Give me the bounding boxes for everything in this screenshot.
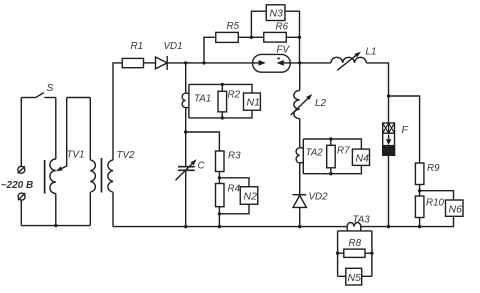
wire TA1 to C xyxy=(185,108,187,167)
node dot R5 branch on top wire xyxy=(202,61,205,64)
resistor R9 xyxy=(415,163,440,185)
arrester F (valve type) xyxy=(383,123,409,155)
node dot right column split xyxy=(387,94,390,97)
node dot rail x=388.5 xyxy=(387,225,390,228)
node dot R7 bottom xyxy=(329,172,332,175)
resistor R7 xyxy=(327,139,350,174)
node dot R3 branch xyxy=(184,130,187,133)
junction dot TV1 winding to rail xyxy=(54,224,57,227)
node dot R7 top xyxy=(329,137,332,140)
svg-text:TV1: TV1 xyxy=(67,150,85,161)
inductor L2 variable xyxy=(291,91,327,119)
wire R3 branch horizontal xyxy=(186,132,220,151)
svg-text:N5: N5 xyxy=(348,272,362,284)
wire R4 to rail xyxy=(218,207,220,227)
wire N3 right drop xyxy=(285,11,300,37)
TV1 core xyxy=(44,160,46,194)
wire branch to R9 column xyxy=(389,96,420,163)
arrester FV body xyxy=(253,45,291,73)
wire R3 to R4 xyxy=(218,172,220,184)
node dot R5/R6/N3 left xyxy=(250,36,253,39)
node dot R2 bottom xyxy=(221,116,224,119)
inductor L1 variable xyxy=(331,47,377,71)
unit N6 xyxy=(446,200,464,216)
node dot R3/R4/N2 top xyxy=(218,176,221,179)
resistor R3 xyxy=(216,151,242,172)
svg-text:S: S xyxy=(47,83,54,94)
svg-text:R1: R1 xyxy=(131,41,144,52)
wire bottom-left rail xyxy=(21,225,90,227)
FV left electrode xyxy=(253,60,266,66)
svg-text:N3: N3 xyxy=(270,8,284,20)
unit N5 xyxy=(346,268,362,285)
svg-text:N1: N1 xyxy=(247,97,260,109)
resistor R1 xyxy=(122,41,143,68)
svg-text:R8: R8 xyxy=(349,238,362,249)
transformer TV2 primary winding xyxy=(90,150,135,226)
wire R5 to node xyxy=(238,36,251,38)
current transformer TA1 winding xyxy=(182,93,211,107)
wire FV to L1 xyxy=(290,62,331,64)
node dot L2 branch on top wire xyxy=(298,61,301,64)
unit N2 xyxy=(240,187,258,205)
svg-text:L2: L2 xyxy=(315,98,326,109)
wire R9 bottom to node xyxy=(419,185,421,197)
terminal X1 upper xyxy=(18,166,25,173)
svg-text:R6: R6 xyxy=(276,22,289,33)
wire L1 to right corner and down xyxy=(366,63,388,123)
svg-text:F: F xyxy=(402,124,409,136)
capacitor C variable xyxy=(176,159,206,180)
wire VD1 to FV xyxy=(167,62,252,64)
wire N2 branch bottom xyxy=(219,204,249,214)
wire N6 branch xyxy=(420,191,454,200)
svg-text:VD2: VD2 xyxy=(309,192,329,203)
transformer TV1 winding (autotransformer) xyxy=(50,150,85,226)
wire L2 to TA2 xyxy=(299,119,301,148)
svg-text:TA1: TA1 xyxy=(194,94,211,105)
node dot rail x=419.6 xyxy=(418,225,421,228)
switch S xyxy=(21,83,56,98)
svg-text:TA2: TA2 xyxy=(306,148,324,159)
node dot R8 left xyxy=(336,252,339,255)
node dot N2 bottom xyxy=(218,212,221,215)
TA1 secondary loop xyxy=(186,84,252,118)
svg-text:R9: R9 xyxy=(427,163,440,174)
terminal X2 lower xyxy=(18,193,25,200)
wire C to bottom rail xyxy=(185,170,187,226)
wire R6 right branch drop to main wire xyxy=(299,37,301,63)
transformer TV2 secondary winding xyxy=(108,160,113,192)
diode VD2 xyxy=(293,192,329,208)
wire TV2 secondary top to main top-left corner xyxy=(113,63,122,160)
wire N3 branch left riser xyxy=(251,11,266,37)
wire node to R6 left xyxy=(251,36,263,38)
node dot rail x=185.7 xyxy=(184,225,187,228)
current transformer TA3 winding on rail xyxy=(347,215,370,227)
wire R10 bottom to rail xyxy=(419,218,421,227)
svg-text:L1: L1 xyxy=(366,47,377,58)
svg-text:R10: R10 xyxy=(426,198,445,209)
svg-text:~220 В: ~220 В xyxy=(1,180,34,191)
wire R1 to VD1 xyxy=(144,62,156,64)
wire TV2 primary top vertical xyxy=(89,98,91,161)
svg-text:N4: N4 xyxy=(356,153,370,165)
svg-text:VD1: VD1 xyxy=(164,41,183,52)
diode VD1 xyxy=(156,41,183,70)
resistor R5 xyxy=(216,21,240,42)
wire R5 branch riser xyxy=(204,37,216,63)
svg-text:R7: R7 xyxy=(337,146,350,157)
svg-text:N2: N2 xyxy=(244,191,258,203)
unit N3 xyxy=(266,5,285,21)
wire main bottom rail xyxy=(113,226,420,228)
wire L2 branch top xyxy=(299,63,301,91)
node dot R6/N3 right xyxy=(298,36,301,39)
svg-text:R4: R4 xyxy=(228,184,241,195)
node dot rail x=299.7 xyxy=(298,225,301,228)
wire N6 bottom to rail xyxy=(420,216,454,226)
resistor R8 xyxy=(338,238,372,257)
svg-text:R3: R3 xyxy=(228,151,241,162)
wire F to bottom rail xyxy=(388,155,390,226)
node dot rail x=219.4 xyxy=(218,225,221,228)
wire lower terminal to bottom-left rail xyxy=(20,200,22,225)
unit N1 xyxy=(244,93,261,110)
svg-text:TA3: TA3 xyxy=(353,215,371,226)
node dot TA1 branch on top wire xyxy=(184,61,187,64)
node dot R8 right xyxy=(370,252,373,255)
svg-text:FV: FV xyxy=(277,45,291,56)
svg-text:TV2: TV2 xyxy=(117,150,136,161)
resistor R6 xyxy=(264,22,289,43)
label ~220 В xyxy=(1,180,34,191)
current transformer TA2 winding xyxy=(296,148,323,163)
svg-text:R2: R2 xyxy=(228,90,241,101)
svg-text:C: C xyxy=(198,161,206,172)
wire TV1 tap to TV2 primary top xyxy=(67,97,91,99)
TA3 secondary loop xyxy=(338,227,372,277)
TV1 variable tap arrow xyxy=(56,98,67,172)
wire TV2 secondary bottom to main bottom rail xyxy=(112,192,114,227)
svg-text:N6: N6 xyxy=(449,204,463,216)
wire left vertical from upper terminal to switch xyxy=(20,98,22,167)
node dot R2 top xyxy=(221,83,224,86)
unit N4 xyxy=(352,149,369,165)
svg-text:R5: R5 xyxy=(227,21,240,32)
wire VD2 to rail xyxy=(299,207,301,226)
resistor R10 xyxy=(415,196,444,218)
wire TA2 to VD2 xyxy=(299,163,301,195)
wire N2 branch top xyxy=(219,178,249,187)
wire TA1 branch top xyxy=(185,63,187,93)
FV gas-filled dot xyxy=(277,57,279,59)
TV2 core xyxy=(101,158,103,193)
wire R6 right to node xyxy=(286,36,299,38)
FV right electrode xyxy=(277,60,291,66)
resistor R2 xyxy=(218,84,241,118)
wire switch to TV1 winding xyxy=(55,98,57,160)
TA2 secondary loop xyxy=(300,139,362,174)
node dot R9/R10/N6 xyxy=(418,189,421,192)
resistor R4 xyxy=(216,184,241,207)
